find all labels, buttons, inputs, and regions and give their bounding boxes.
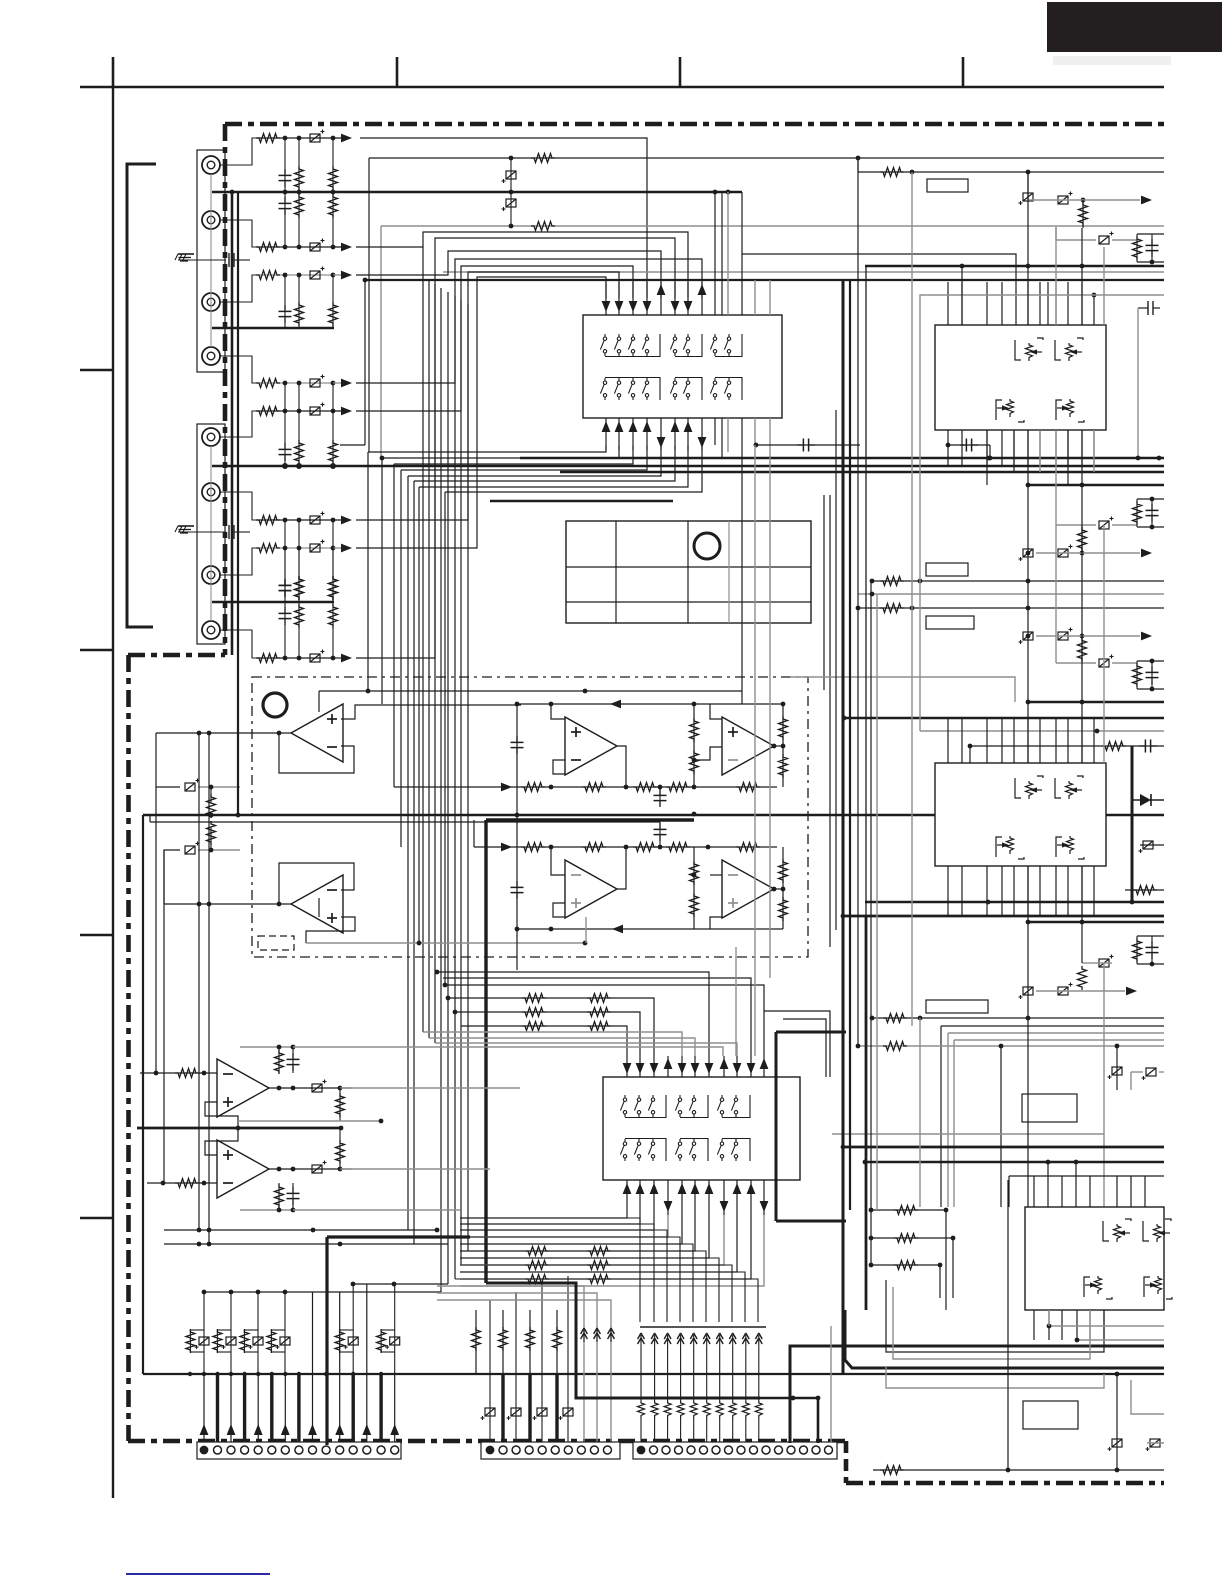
feedback resistors x694: [690, 704, 699, 787]
page frame left rule: [112, 87, 114, 1498]
test point circle TP1: [263, 693, 287, 717]
row y608: [856, 604, 1164, 613]
vertical trunk x866 (thick): [865, 267, 867, 1310]
IC3 top pins: [948, 264, 1096, 325]
vertical bus x1104: [1103, 247, 1105, 1134]
polar cap on riser x1132: [1139, 841, 1165, 853]
IC4 top pins: [948, 718, 1094, 763]
value box VB6: [1023, 1401, 1078, 1429]
input selector IC1: [583, 315, 782, 418]
output channel C: [1019, 628, 1153, 668]
output channel B: [1019, 517, 1153, 562]
shunt C/R/R set ch2: [279, 192, 338, 247]
value box VB5: [1022, 1094, 1077, 1122]
junction dots ch B/C: [1026, 551, 1031, 639]
frame tick left y935: [80, 934, 113, 936]
RCA jack J3: [202, 293, 220, 311]
IC1 pass-through verticals: [715, 192, 770, 466]
board boundary left upper segment: [223, 124, 228, 655]
connector strip CN4: [481, 1442, 620, 1459]
input channel 7 (R,C,polar cap C): [220, 540, 352, 576]
volume IC4 (mid right): [935, 763, 1106, 866]
U1A wiring: [156, 689, 587, 773]
IC2 switch row upper: [620, 1095, 750, 1118]
board boundary jog at y655: [128, 653, 225, 658]
heavy elbow x760: [486, 1283, 760, 1398]
connector CN2 body: [197, 424, 225, 644]
polar caps x1117/x1151: [1001, 1046, 1164, 1207]
strip1 arrow pin leads: [200, 1374, 400, 1445]
volume IC5 (bottom right): [1025, 1207, 1172, 1310]
strip1 bold pin leads: [218, 1374, 382, 1445]
bias network upper (polar cap + R): [156, 733, 240, 818]
chassis ground cap upper: [175, 253, 250, 267]
bottom routing rows: [460, 1218, 758, 1322]
signal GND bus y815 (thick): [143, 813, 1164, 818]
decoupling cap under IC3: [946, 439, 993, 461]
route ch2 to selector: [356, 232, 688, 298]
wire y254 to IC3: [742, 254, 1016, 325]
gray wire y677: [790, 677, 1015, 702]
connector strip CN5: [633, 1442, 837, 1459]
gray bus y594: [858, 592, 1164, 597]
row y581: [870, 577, 1164, 586]
long risers x156/x164: [156, 787, 164, 1183]
RCA jack J1: [202, 156, 220, 174]
heavy bend into bus: [845, 1310, 1164, 1376]
GND bus upper (thick): [212, 190, 742, 195]
hyperlink underline: [126, 1573, 270, 1575]
bus y1162 (thick): [863, 1160, 1164, 1165]
gray row y1038: [429, 1038, 695, 1056]
vertical bus cluster x366-408: [368, 452, 445, 1244]
output channel A: [1019, 172, 1165, 264]
IC2 top pin arrows: [623, 1056, 769, 1077]
vertical bus x1082: [1081, 228, 1083, 936]
board boundary left lower segment: [126, 655, 131, 1441]
bus y266 (thick): [865, 264, 1164, 269]
filter row y787 (R-R-R-R): [394, 783, 777, 792]
board boundary bottom-right edge: [846, 1481, 1164, 1486]
analog block dashed outline: [252, 677, 808, 957]
gray loop y1388: [886, 1366, 1104, 1388]
vertical bus x1028 long: [1027, 172, 1029, 1207]
heavy riser x486: [484, 820, 487, 1283]
bus y485: [1026, 483, 1164, 488]
route ch8 to selector: [356, 238, 675, 658]
IC4 bottom pins: [948, 866, 1094, 916]
risers between IC3/IC4 area: [987, 430, 1094, 485]
riser x143 (thick): [142, 815, 144, 1374]
connector CN1 body: [197, 150, 225, 372]
resistor R on bus y158: [531, 154, 555, 163]
IC1 top pin arrows: [602, 282, 707, 315]
table highlight circle: [694, 533, 720, 559]
output channel D cluster: [1019, 936, 1165, 999]
value box VB1: [927, 179, 968, 192]
frame tick left y1218: [80, 1217, 113, 1219]
board boundary bottom edge: [128, 1439, 848, 1444]
resistor row y1026: [461, 1022, 627, 1057]
shunt set ch7 to lower bus: [279, 548, 338, 602]
gray feeder y731: [920, 729, 1164, 734]
strip3 ladder bus y1327: [640, 1326, 766, 1328]
diode D1: [1132, 794, 1164, 806]
U2B wiring: [511, 847, 627, 917]
route ch7 to selector: [356, 277, 606, 548]
shunt set ch3 to mid bus: [279, 275, 338, 328]
gray feeder y1134: [832, 1134, 1104, 1207]
route ch6 to selector: [356, 272, 619, 520]
U3B wiring + feedback Rs: [690, 847, 788, 929]
mute bus y1292: [202, 1290, 441, 1295]
IC2 output fan: [460, 1215, 764, 1286]
input channel 1 (R,C,polar cap C): [220, 130, 352, 166]
strip1 extra verticals: [313, 1284, 367, 1374]
strip2 gray columns with chevrons: [437, 1286, 614, 1445]
frame tick top x397: [396, 57, 399, 87]
bus y226 (gray): [381, 222, 1164, 231]
mute bus y1284: [351, 1282, 448, 1287]
columns x1008/x1117 bottom: [1008, 1180, 1164, 1470]
center vertical group x736-776: [736, 445, 770, 1056]
GND bus lower short (thick): [212, 601, 334, 604]
heavy bus y820: [486, 812, 696, 820]
bus y458 (thick): [520, 443, 1164, 461]
sub-circuit bracket: [127, 164, 156, 627]
mode table: [566, 521, 811, 623]
cap row y445-446: [756, 439, 860, 452]
main bus y1147 (thick): [841, 1145, 1164, 1150]
U3A input wiring: [694, 704, 722, 760]
ground cap right x1138: [1136, 301, 1160, 460]
bus y702 (thick): [1026, 700, 1164, 705]
row y978: [443, 978, 751, 1056]
gray row y1047 feed: [460, 1047, 723, 1056]
gray corners above IC2 right: [764, 1011, 830, 1077]
selector output fan to filters: [368, 446, 702, 492]
gray row y1046: [856, 1042, 1164, 1051]
bottom return wire y929: [515, 925, 783, 934]
U1B wiring: [164, 863, 587, 945]
component outline dashed (spare): [258, 936, 294, 950]
verticals x824/x830: [824, 495, 830, 947]
vertical bus x920 (gray): [920, 295, 1164, 1207]
redacted title block: [1047, 2, 1222, 52]
IC5 bottom pins: [1034, 1310, 1104, 1340]
vertical bus x962: [961, 266, 963, 325]
row y1018: [870, 1014, 1164, 1023]
shunt C/R/R set ch6: [279, 520, 338, 602]
main bus y718 (thick): [842, 716, 1164, 721]
record selector IC2: [603, 1077, 800, 1180]
bus y501 (thick): [490, 500, 673, 502]
bias network lower (polar cap + R): [164, 821, 240, 904]
bus y280 (heavy): [363, 278, 1164, 283]
bottom resistor rows (left pair): [455, 1247, 611, 1284]
CN4 pins: [486, 1446, 612, 1455]
frame tick left y370: [80, 369, 113, 371]
IC1 switch row lower: [600, 378, 742, 401]
U2A feedback loop: [553, 746, 626, 787]
route ch4 to selector: [356, 259, 702, 383]
riser x381 (gray): [380, 226, 382, 458]
IC3 bottom pins: [948, 430, 1094, 466]
IC1 bottom pin arrows: [602, 418, 707, 450]
feeders into IC5: [1009, 1162, 1164, 1207]
RCA jack J4: [202, 347, 220, 365]
value box VB3: [926, 616, 974, 629]
riser x365: [340, 280, 365, 445]
riser x369: [368, 158, 370, 452]
vertical bus x871: [870, 581, 872, 1265]
U2A/U3A top feedback wiring: [511, 691, 786, 970]
bus y922 (thick): [1026, 920, 1164, 925]
vertical bus cluster x423-470: [423, 232, 468, 1292]
input channel 4 (R,C,polar cap C): [220, 356, 352, 388]
strip2 resistor columns: [472, 1310, 562, 1374]
vertical bus x858: [857, 158, 859, 1046]
aux rows y1230/y1244: [164, 1228, 448, 1247]
input channel 6 (R,C,polar cap C): [220, 492, 352, 525]
op-amp U2A: [565, 717, 617, 775]
value box VB2: [926, 563, 968, 576]
gray row y1032: [423, 1032, 682, 1056]
strip1 R + polar-cap columns: [186, 1284, 400, 1374]
bias bus y1128 (thick): [137, 1127, 341, 1130]
RCA jack J5: [202, 428, 220, 446]
board boundary bottom step: [844, 1441, 849, 1483]
shunt C/R/R set ch1: [279, 138, 338, 192]
page frame top rule: [80, 86, 1164, 88]
GND bus mid short (thick): [212, 327, 334, 330]
input channel 3 (R,C,polar cap C): [220, 267, 352, 303]
wire ch1 to selector: [360, 138, 647, 298]
route ch5 to selector: [356, 266, 633, 411]
vertical trunk x843 (thick): [842, 280, 845, 1374]
decoupling polar caps on node x511: [502, 158, 517, 226]
bottom row y1470: [873, 1466, 1164, 1475]
IC5 top extra pins: [1034, 1176, 1145, 1207]
connector strip CN3: [197, 1442, 401, 1459]
bus y472 (thick): [560, 471, 1164, 473]
gray row y1043: [435, 1043, 737, 1056]
U4A feedback R+C: [217, 1045, 460, 1074]
frame tick top x680: [679, 57, 682, 87]
input channel 2 (R,C,polar cap C): [220, 220, 352, 252]
long risers x199/x209: [199, 733, 209, 1244]
thick bus corner x327: [327, 1237, 470, 1445]
bus y272 (gray): [443, 271, 1164, 273]
CN3 pins: [200, 1446, 399, 1455]
input channel 5 (R,C,polar cap C): [220, 403, 352, 438]
bus y158 (gray): [369, 156, 1164, 161]
op-amp U1A (buffer): [291, 704, 343, 762]
row y746 with R and C: [968, 740, 1164, 764]
board boundary (dash-dot) top edge: [225, 122, 1164, 127]
U3A output + feedback Rs: [772, 704, 788, 787]
row y985: [443, 983, 764, 1056]
CN1 jack chain wire: [210, 174, 212, 347]
CN2 jack chain wire: [210, 446, 212, 621]
gray column x831: [830, 1326, 832, 1443]
RCA jack J7: [202, 566, 220, 584]
U4B feedback R+C: [217, 1183, 460, 1212]
op-amp U3B: [722, 860, 774, 918]
value box VB4: [926, 1000, 988, 1013]
chassis ground cap lower: [175, 525, 250, 539]
op-amp U2B: [565, 860, 617, 918]
CN5 pins: [637, 1446, 833, 1455]
RCA jack J6: [202, 483, 220, 501]
GND bus y1374: [143, 1372, 1164, 1376]
input channel 8 (R,C,polar cap C): [220, 630, 352, 663]
faint caption ghost: [1053, 56, 1171, 65]
vertical bus x877: [876, 594, 878, 1210]
resistor row y1012: [453, 1008, 640, 1057]
strip2 feed columns with polar caps: [481, 1276, 574, 1445]
row y972: [435, 970, 709, 1056]
op-amp U4A: [217, 1059, 269, 1117]
IC2 switch row lower: [620, 1139, 750, 1162]
heavy net to CN5 right: [790, 1346, 1164, 1443]
strip3 chevron arrows: [638, 1333, 763, 1347]
op-amp U1B (buffer): [291, 875, 343, 933]
coupling cap row1: [654, 787, 667, 807]
nested corner buses y1026-1040: [941, 1026, 1164, 1207]
vertical bus x836: [835, 410, 837, 930]
bus y172: [858, 158, 1164, 177]
strip2 bold leads: [503, 1374, 557, 1445]
RCA jack J2: [202, 211, 220, 229]
GND riser (thick): [231, 192, 234, 655]
U4A output divider R: [336, 1088, 345, 1121]
IC1 switch row upper: [600, 334, 742, 357]
route ch3 to selector: [356, 251, 661, 298]
thin companion y822: [150, 815, 660, 822]
U4B (mirror) wiring: [147, 1126, 490, 1198]
vertical trunk x850 (thick): [849, 280, 851, 1210]
U2B bias riser: [585, 917, 587, 943]
shunt C/R/R set ch8: [279, 602, 338, 658]
vertical bus x1056: [1055, 227, 1057, 663]
filter row y847 (R-R-R-R): [474, 820, 777, 852]
frame tick top x963: [962, 57, 965, 87]
output channel C RC: [1133, 659, 1165, 692]
op-amp U3A: [722, 717, 774, 775]
GND bus 2 (thick): [212, 463, 1164, 469]
gray elbow x1131 bottom: [1131, 1380, 1164, 1414]
bus y902 (thick): [865, 886, 1164, 905]
vertical bus x912 (gray): [911, 172, 913, 1026]
coupling cap row2: [654, 820, 667, 847]
gray feed y1121: [238, 1119, 383, 1124]
RCA jack J8: [202, 621, 220, 639]
U4A wiring: [140, 1047, 520, 1130]
heavy branch x776: [776, 1032, 846, 1221]
frame tick top-left: [112, 57, 115, 87]
strip3 resistors: [638, 1347, 763, 1445]
loop routes lower right: [886, 1280, 1164, 1359]
IC2 bottom pin arrows: [623, 1180, 769, 1215]
resistor rows lower right: [869, 1206, 956, 1299]
heavy net x818: [760, 1396, 820, 1443]
riser x238 (thick): [237, 192, 239, 815]
heavy riser x1132: [1131, 746, 1134, 902]
shunt C/R/R set ch4: [279, 383, 338, 466]
resistor row y998: [446, 994, 654, 1057]
main bus y916 (thick): [841, 914, 1164, 919]
frame tick left y650: [80, 649, 113, 651]
volume IC3 (upper right): [935, 325, 1106, 430]
output channel B RC: [1133, 497, 1165, 530]
